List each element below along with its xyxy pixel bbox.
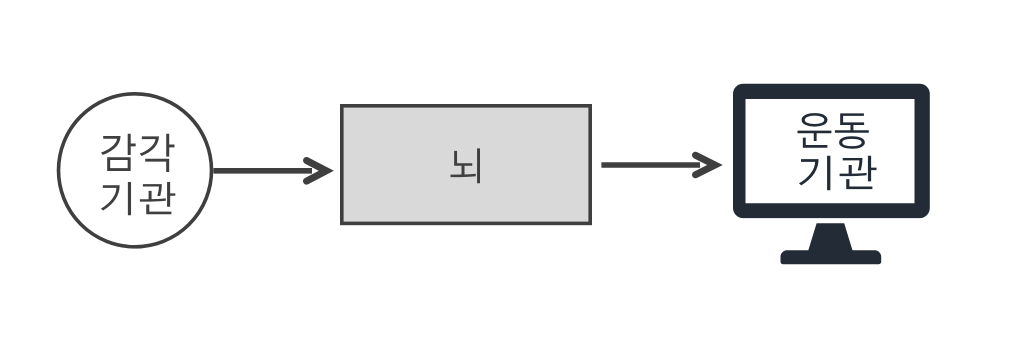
label: 기관 (line 2 of circle)	[101, 182, 175, 215]
node: brain box	[342, 106, 590, 224]
wire: arrow circle->box	[214, 161, 327, 182]
wire: arrow box->monitor	[601, 155, 715, 175]
label: 뇌	[450, 148, 480, 183]
label: 감각 (line 1 of circle)	[101, 134, 175, 172]
label: 운동 (monitor line 1)	[798, 113, 869, 149]
label: 기관 (monitor line 2)	[799, 156, 877, 190]
icon: monitor (motor organ)	[733, 84, 930, 264]
node: sensory-organ circle	[59, 94, 212, 247]
